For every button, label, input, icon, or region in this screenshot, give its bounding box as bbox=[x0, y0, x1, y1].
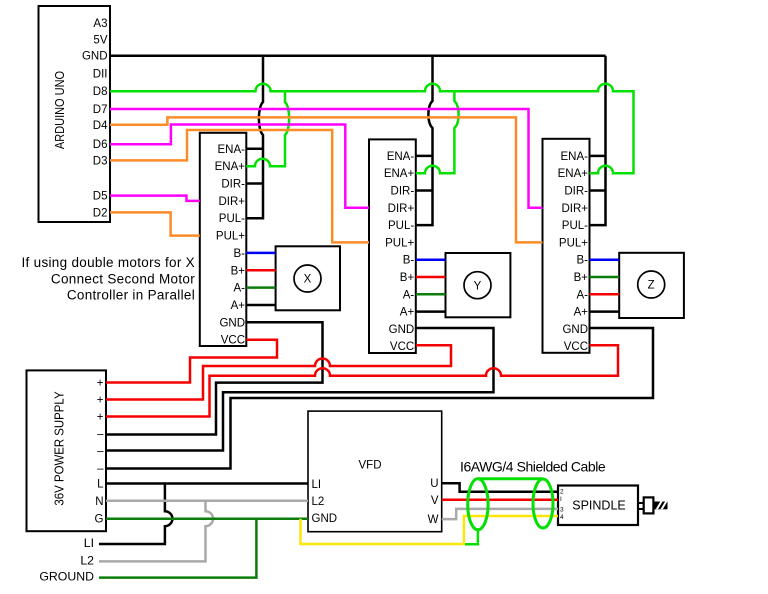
wire: D8 green enable bus bbox=[110, 84, 634, 174]
wire: driver Y VCC red to supply plus 2 bbox=[106, 345, 451, 399]
svg-text:DIR+: DIR+ bbox=[561, 203, 588, 215]
wire: driver X A- green bbox=[246, 286, 275, 289]
wire: D5 magenta to driver X DIR+ bbox=[110, 196, 200, 201]
svg-text:PUL-: PUL- bbox=[562, 220, 588, 232]
svg-text:V: V bbox=[431, 495, 439, 507]
wire: yellow VFD GND to spindle pin4 bbox=[301, 516, 559, 544]
wire: supply N gray to VFD L2 bbox=[106, 500, 308, 503]
stepper driver U4 (Z) box bbox=[543, 139, 590, 353]
svg-text:–: – bbox=[97, 446, 104, 458]
svg-text:PUL+: PUL+ bbox=[385, 237, 414, 249]
svg-text:GND: GND bbox=[562, 324, 588, 336]
motor M1 (X) box bbox=[276, 246, 340, 310]
driver U2 pin labels bbox=[215, 144, 246, 347]
wire: VFD V red to spindle pin1 bbox=[442, 499, 558, 502]
wire: driver X B- blue to motor X bbox=[246, 252, 275, 255]
svg-text:–: – bbox=[97, 429, 104, 441]
wire: driver Y A- green bbox=[416, 293, 446, 296]
svg-text:ARDUINO UNO: ARDUINO UNO bbox=[53, 71, 67, 149]
wire: driver Z GND return to supply minus 3 bbox=[106, 328, 653, 469]
svg-text:3: 3 bbox=[560, 506, 564, 513]
motor M2 (Y) box bbox=[446, 253, 511, 317]
cable shield top line bbox=[478, 477, 543, 480]
wire: VFD U black to spindle pin2 bbox=[442, 483, 558, 492]
svg-text:2: 2 bbox=[560, 489, 564, 496]
wire: black ENA bus driver X bbox=[246, 56, 263, 219]
wire: supply L to VFD L1 bbox=[106, 482, 308, 485]
svg-text:ENA+: ENA+ bbox=[558, 168, 589, 180]
svg-text:PUL-: PUL- bbox=[388, 220, 414, 232]
spindle M4 box bbox=[558, 486, 638, 526]
arduino U1 box bbox=[39, 6, 111, 222]
svg-text:GND: GND bbox=[219, 317, 245, 329]
wire: driver Z DIR- stub bbox=[590, 189, 606, 192]
svg-text:U: U bbox=[430, 478, 438, 490]
wire: N branch to mains L2 bbox=[99, 501, 213, 562]
svg-text:ENA+: ENA+ bbox=[215, 161, 246, 173]
svg-text:4: 4 bbox=[560, 514, 564, 521]
svg-text:A+: A+ bbox=[400, 307, 415, 319]
svg-text:PUL-: PUL- bbox=[219, 213, 245, 225]
wire: driver Y GND return to supply minus 2 bbox=[106, 328, 494, 451]
svg-text:Connect Second Motor: Connect Second Motor bbox=[51, 271, 195, 286]
svg-text:DIR-: DIR- bbox=[564, 186, 588, 198]
wire: driver Z ENA- stub bbox=[590, 155, 606, 158]
wire: driver Y B+ red bbox=[416, 276, 446, 279]
driver U3 pin labels bbox=[384, 151, 415, 353]
svg-text:B-: B- bbox=[577, 255, 589, 267]
mains labels bbox=[39, 536, 94, 584]
svg-text:+: + bbox=[97, 378, 104, 390]
cable shield ellipse right bbox=[533, 479, 553, 528]
svg-text:Z: Z bbox=[648, 280, 655, 292]
wire: driver X A+ black bbox=[246, 304, 275, 307]
wire: GND bus from arduino bbox=[110, 54, 606, 57]
wire: green ENA+ branch driver Y bbox=[416, 91, 459, 173]
wire: driver X DIR- stub bbox=[246, 182, 263, 185]
wire: driver Y A+ black bbox=[416, 310, 446, 313]
cable shield ellipse left bbox=[468, 479, 488, 530]
svg-text:B+: B+ bbox=[231, 265, 246, 277]
svg-text:VCC: VCC bbox=[221, 335, 245, 347]
svg-text:D4: D4 bbox=[93, 120, 108, 132]
power supply PS1 box bbox=[27, 370, 107, 531]
svg-text:Controller in Parallel: Controller in Parallel bbox=[67, 288, 195, 303]
svg-text:If using double motors for X: If using double motors for X bbox=[22, 255, 196, 270]
svg-text:DIR+: DIR+ bbox=[218, 196, 245, 208]
svg-text:+: + bbox=[97, 395, 104, 407]
svg-text:GND: GND bbox=[389, 324, 415, 336]
svg-text:B+: B+ bbox=[400, 272, 415, 284]
svg-text:ENA-: ENA- bbox=[387, 151, 415, 163]
svg-text:A-: A- bbox=[577, 289, 589, 301]
wire: supply G green to VFD GND bbox=[106, 517, 308, 520]
svg-text:SPINDLE: SPINDLE bbox=[572, 499, 626, 513]
svg-text:DIR+: DIR+ bbox=[388, 203, 415, 215]
svg-text:VCC: VCC bbox=[564, 341, 588, 353]
wire: driver Z A- red bbox=[590, 293, 620, 296]
wire: D4 orange to driver Z PUL+ bbox=[110, 117, 543, 242]
svg-text:DII: DII bbox=[93, 69, 108, 81]
VFD U5 box bbox=[308, 411, 442, 532]
svg-text:ENA-: ENA- bbox=[218, 144, 246, 156]
svg-text:A-: A- bbox=[403, 289, 415, 301]
spindle collet bbox=[644, 497, 654, 513]
svg-text:LI: LI bbox=[84, 536, 94, 550]
svg-text:D6: D6 bbox=[93, 139, 108, 151]
arduino pin labels bbox=[82, 18, 108, 219]
svg-text:ENA+: ENA+ bbox=[384, 168, 415, 180]
svg-text:DIR-: DIR- bbox=[221, 179, 245, 191]
svg-text:Y: Y bbox=[474, 280, 482, 292]
svg-text:5V: 5V bbox=[93, 35, 107, 47]
wire: driver Y B- blue to motor Y bbox=[416, 258, 446, 261]
svg-text:B-: B- bbox=[403, 255, 415, 267]
svg-text:A+: A+ bbox=[231, 300, 246, 312]
svg-text:I6AWG/4 Shielded Cable: I6AWG/4 Shielded Cable bbox=[460, 459, 606, 475]
wire: driver X ENA- stub bbox=[246, 148, 263, 151]
svg-text:L2: L2 bbox=[80, 553, 94, 567]
svg-text:ENA-: ENA- bbox=[561, 151, 589, 163]
svg-text:–: – bbox=[97, 463, 104, 475]
svg-text:D7: D7 bbox=[93, 104, 108, 116]
stepper driver U2 (X) box bbox=[200, 133, 247, 346]
wire: black ENA bus driver Y bbox=[416, 56, 433, 225]
wire: driver X GND return to supply minus 1 bbox=[106, 322, 323, 434]
svg-text:L2: L2 bbox=[312, 496, 325, 508]
wire: driver X VCC red to supply plus 1 bbox=[106, 340, 277, 383]
svg-text:B+: B+ bbox=[574, 272, 589, 284]
svg-text:A-: A- bbox=[234, 283, 246, 295]
stepper driver U3 (Y) box bbox=[369, 139, 416, 353]
wire: driver X B+ red bbox=[246, 269, 275, 272]
svg-text:LI: LI bbox=[312, 479, 322, 491]
wire: G branch to mains GROUND bbox=[99, 519, 256, 578]
shield drain green tail bbox=[465, 530, 478, 545]
svg-text:GND: GND bbox=[312, 513, 338, 525]
svg-text:X: X bbox=[304, 274, 312, 286]
wire: driver Z B+ green bbox=[590, 276, 620, 279]
wire: driver Y DIR- stub bbox=[416, 189, 433, 192]
wire: D6 magenta to driver Y DIR+ bbox=[110, 125, 369, 208]
svg-text:VFD: VFD bbox=[359, 460, 382, 472]
power supply pin labels bbox=[95, 378, 105, 526]
svg-text:+: + bbox=[97, 412, 104, 424]
svg-text:36V POWER SUPPLY: 36V POWER SUPPLY bbox=[52, 391, 67, 505]
wire: D3 orange to driver Y PUL+ bbox=[110, 130, 369, 242]
svg-text:D2: D2 bbox=[93, 207, 108, 219]
wire: black ENA bus driver Z bbox=[590, 56, 606, 225]
motor M3 (Z) box bbox=[619, 253, 684, 318]
wire: D2 orange to driver X PUL+ bbox=[110, 212, 200, 235]
svg-text:D5: D5 bbox=[93, 191, 108, 203]
svg-text:A+: A+ bbox=[574, 307, 589, 319]
wire: VFD W gray to spindle pin3 bbox=[442, 509, 558, 519]
spindle pin numbers bbox=[560, 489, 564, 522]
svg-text:DIR-: DIR- bbox=[391, 186, 415, 198]
svg-text:D3: D3 bbox=[93, 155, 108, 167]
driver U4 pin labels bbox=[558, 151, 589, 353]
svg-text:PUL+: PUL+ bbox=[559, 237, 588, 249]
svg-text:PUL+: PUL+ bbox=[216, 231, 245, 243]
VFD pin labels bbox=[312, 479, 338, 525]
svg-text:B-: B- bbox=[234, 248, 246, 260]
svg-text:VCC: VCC bbox=[390, 341, 414, 353]
spindle shaft bbox=[638, 503, 645, 509]
wire: driver Z B- blue to motor Z bbox=[590, 258, 620, 261]
svg-text:GND: GND bbox=[82, 51, 108, 63]
svg-text:I: I bbox=[560, 496, 562, 503]
svg-text:N: N bbox=[95, 496, 103, 508]
wire: driver Z VCC red to supply plus 3 bbox=[106, 345, 618, 416]
wire: green ENA+ branch driver X bbox=[246, 91, 289, 166]
svg-text:GROUND: GROUND bbox=[39, 570, 94, 584]
svg-text:L: L bbox=[97, 479, 104, 491]
svg-text:D8: D8 bbox=[93, 86, 108, 98]
wire: D7 magenta to driver Z DIR+ bbox=[110, 109, 543, 208]
spindle drill bit (hatched) bbox=[653, 500, 667, 511]
wire: driver Z A+ black bbox=[590, 310, 620, 313]
wire: driver Y ENA- stub bbox=[416, 155, 433, 158]
svg-text:G: G bbox=[95, 514, 104, 526]
svg-text:W: W bbox=[428, 514, 439, 526]
svg-text:A3: A3 bbox=[93, 18, 107, 30]
wire: L branch to mains L1 bbox=[99, 484, 172, 545]
note text bbox=[22, 255, 196, 303]
